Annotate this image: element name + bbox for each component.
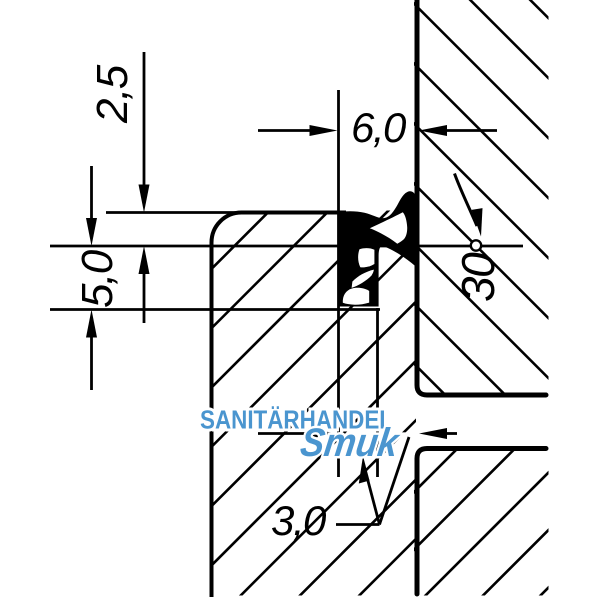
seal foot hollow 2: [352, 270, 374, 288]
dimension line 5,0 upper segment (x=91.5): [90, 166, 93, 222]
hatch line B3: [371, 0, 600, 600]
hatch line R2: [400, 0, 560, 90]
leader 3,0 branch to arrow: [368, 479, 380, 525]
arrowhead 3,0 left at wall (tip 419,433.5): [419, 428, 447, 439]
hatching of right lower frame part (45° rising lines): [256, 0, 600, 600]
leader 3,0 branch to dimension line: [380, 437, 410, 525]
arrowhead 5,0 down (tip 91.5,246): [86, 218, 97, 246]
dimension line 6,0 right shaft (y=130.5): [441, 129, 497, 132]
leader 3,0 horizontal stub: [336, 523, 380, 526]
extension line of top surface (y=212.5): [106, 211, 250, 214]
seal foot hollow 3: [343, 288, 369, 305]
extension line groove left wall (x=338.5): [337, 90, 340, 477]
hatch line B4: [429, 0, 600, 600]
hatch line R1: [400, 0, 560, 30]
seal hollow under lip: [370, 212, 407, 244]
hatch line R5: [400, 110, 560, 270]
svg-text:3,0: 3,0: [271, 497, 327, 544]
dimension line 2,5 lower segment (x=144): [143, 270, 146, 323]
hatch line R7: [400, 230, 560, 390]
dimension line 3,0 left shaft (y=433.5): [258, 432, 312, 435]
dimension line 2,5 upper segment (x=144): [143, 52, 146, 187]
extension line of groove bottom (y=309.5): [50, 308, 380, 311]
seal foot hollow 1: [358, 248, 374, 267]
dimension line 5,0 lower segment (x=91.5): [90, 333, 93, 390]
dimension line 3,0 right shaft (y=433.5): [441, 432, 457, 435]
hatch line B1: [256, 0, 600, 600]
right frame wall edge + groove top edge: [417, 0, 546, 395]
extension line / angle leg (y=246): [50, 245, 523, 248]
svg-text:6,0: 6,0: [351, 104, 407, 151]
svg-text:2,5: 2,5: [88, 64, 137, 124]
hatch line R9: [400, 350, 560, 510]
arrowhead 2,5 down (tip 144,212.5): [139, 185, 150, 213]
hatch line L9: [305, 0, 600, 600]
arrowhead 6,0 left (tip 419,130.5): [419, 125, 447, 136]
hatch line L8: [246, 0, 600, 600]
arrowhead 2,5 up (tip 144,246): [139, 246, 150, 274]
svg-text:5,0: 5,0: [73, 249, 122, 308]
hatch line L1: [0, 0, 480, 600]
hatch line B2: [314, 0, 600, 600]
hatch line R4: [400, 50, 560, 210]
hatch line B5: [486, 0, 600, 600]
seal profile (solid black gasket): [334, 191, 416, 306]
left part top edge, rounded corner and left edge: [212, 213, 347, 598]
svg-text:Smuk: Smuk: [298, 420, 404, 465]
arrowhead 6,0 right (tip 337.5,130.5): [310, 125, 338, 136]
svg-text:30: 30: [452, 252, 504, 302]
dimension line 6,0 left shaft (y=130.5): [258, 129, 314, 132]
hatch line L6: [127, 0, 600, 600]
hatch line R8: [400, 290, 560, 450]
arrowhead angle 30° (tip 481,236.5): [472, 208, 483, 236]
groove bottom edge + lower wall edge: [417, 449, 546, 595]
extension line groove right wall (x=377.5): [376, 308, 379, 477]
hatch line L7: [186, 0, 600, 600]
hatch line R6: [400, 170, 560, 330]
arrowhead leader up (tip 363,456): [359, 456, 370, 484]
angle dimension arc 30°: [455, 174, 478, 227]
hatching of right upper frame part (45° falling lines): [400, 0, 560, 510]
arrowhead 3,0 right (tip 336,433.5): [308, 428, 336, 439]
degree symbol circle of 30°: [471, 240, 481, 250]
arrowhead 5,0 up (tip 91.5,309.5): [86, 310, 97, 338]
hatch line R3: [400, 0, 560, 150]
